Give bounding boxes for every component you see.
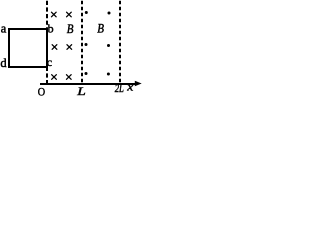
dot symbol row1 col1 [85, 11, 88, 14]
boundary dashed line at x=2L [119, 1, 121, 85]
dot symbol row3 col2 [107, 73, 110, 76]
cross symbol row1 col1 [51, 12, 71, 79]
dot symbol row3 col1 [85, 72, 88, 75]
conducting loop abcd: top edge [8, 28, 48, 30]
svg-text:B: B [97, 22, 104, 36]
cross symbol row2 col1 [52, 45, 57, 50]
dot symbol row1 col2 [108, 12, 111, 15]
x axis [40, 83, 136, 85]
dot symbol row2 col2 [107, 44, 110, 47]
cross symbol row3 col1 [52, 75, 57, 80]
svg-text:O: O [38, 86, 45, 99]
loop left edge [8, 28, 10, 68]
svg-text:x: x [126, 80, 134, 93]
loop bottom edge [8, 66, 48, 68]
cross symbol row1 col2 [67, 12, 72, 17]
boundary dashed line at x=L [81, 1, 83, 85]
svg-text:2L: 2L [115, 83, 124, 95]
svg-text:c: c [47, 55, 52, 69]
svg-text:B: B [67, 22, 74, 36]
boundary dashed line at x=O [46, 1, 48, 85]
axis arrowhead [135, 81, 142, 87]
cross symbol row2 col2 [67, 45, 72, 50]
dot symbol row2 col1 [85, 43, 88, 46]
cross symbol row3 col2 [66, 75, 71, 80]
svg-text:a: a [1, 22, 7, 36]
svg-text:b: b [48, 22, 54, 36]
svg-text:L: L [76, 84, 86, 97]
svg-text:d: d [0, 56, 7, 70]
loop right edge on boundary [46, 28, 48, 68]
